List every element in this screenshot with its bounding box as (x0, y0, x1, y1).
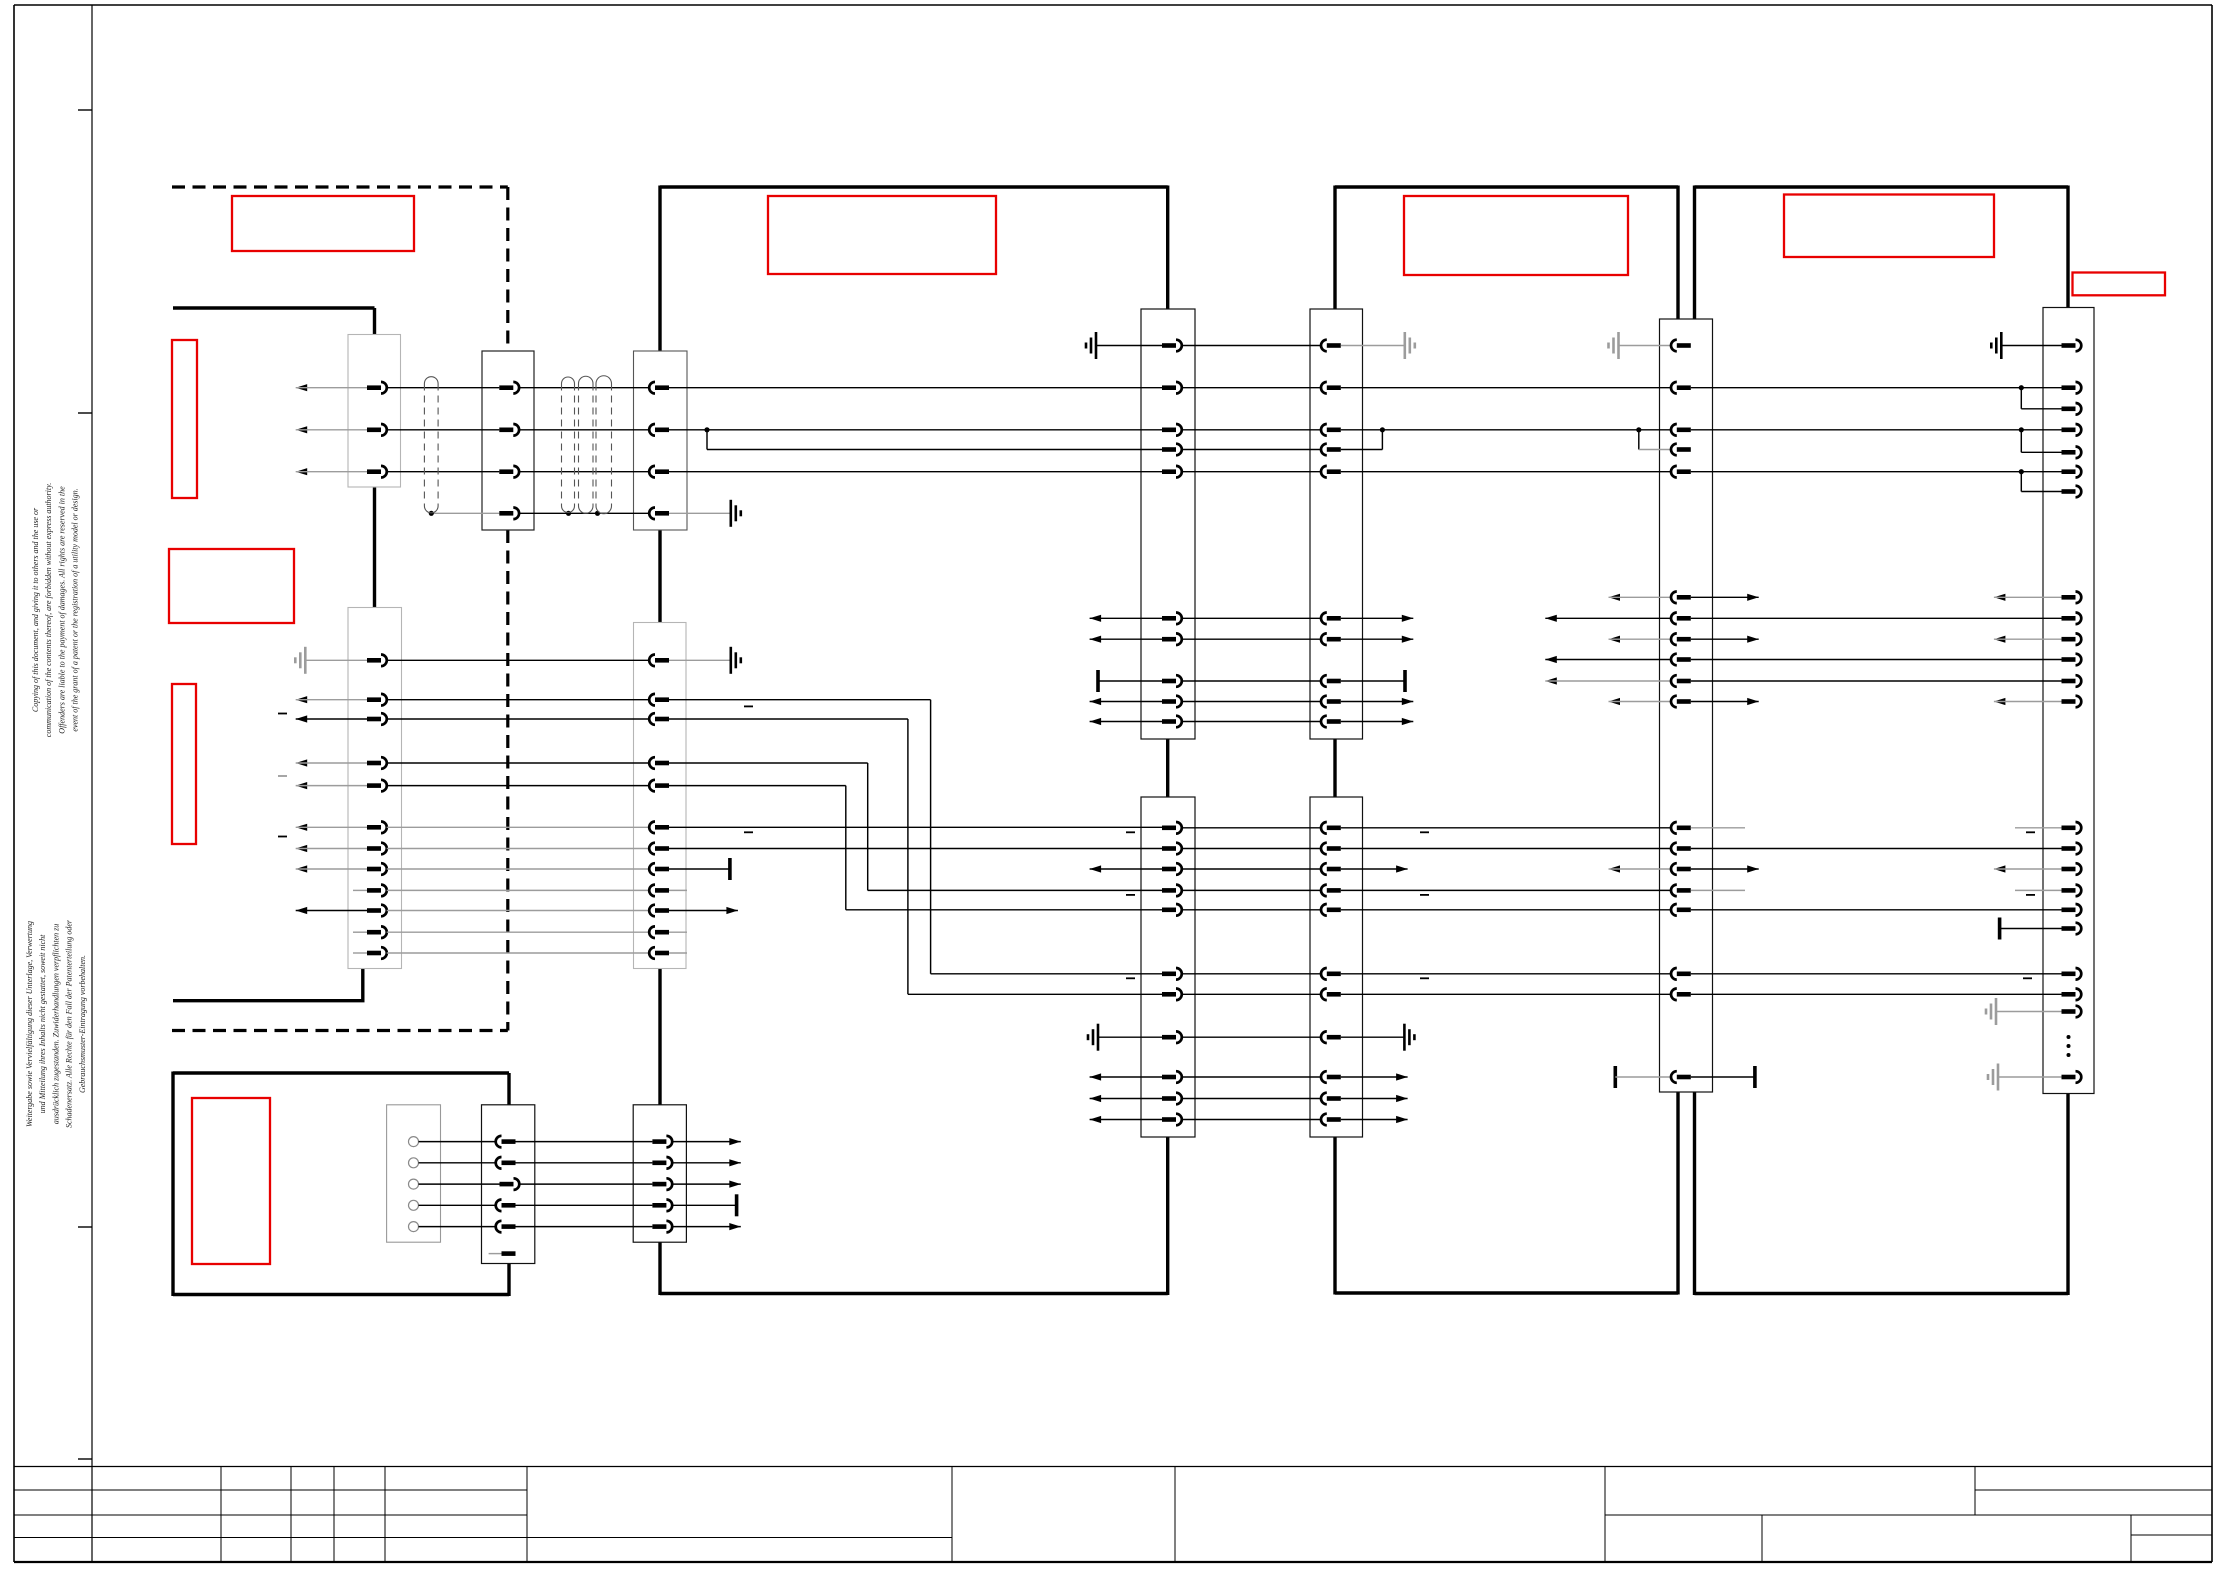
svg-text:Schadenersatz. Alle Rechte für: Schadenersatz. Alle Rechte für den Fall … (65, 919, 74, 1128)
svg-text:Offenders are liable to the pa: Offenders are liable to the payment of d… (57, 486, 66, 734)
svg-text:Weitergabe sowie Vervielfältig: Weitergabe sowie Vervielfältigung dieser… (25, 921, 34, 1127)
svg-text:event of the grant of a patent: event of the grant of a patent or the re… (71, 488, 80, 731)
svg-text:communication of the contents: communication of the contents thereof, a… (44, 483, 53, 737)
svg-text:Gebrauchsmuster-Eintragung vor: Gebrauchsmuster-Eintragung vorbehalten. (78, 955, 87, 1093)
svg-text:und Mitteilung ihres Inhalts n: und Mitteilung ihres Inhalts nicht gesta… (38, 934, 47, 1114)
svg-text:Copying of this document, and: Copying of this document, and giving it … (31, 507, 40, 712)
svg-text:ausdrücklich zugestanden. Zuwi: ausdrücklich zugestanden. Zuwiderhandlun… (51, 924, 60, 1125)
